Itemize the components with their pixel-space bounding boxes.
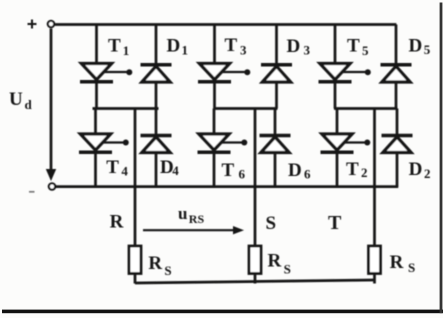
svg-text:T: T [108, 36, 121, 57]
svg-text:RS: RS [189, 212, 205, 226]
svg-text:1: 1 [182, 43, 189, 58]
svg-text:D: D [287, 36, 301, 57]
svg-text:4: 4 [121, 163, 128, 178]
svg-text:6: 6 [239, 167, 246, 182]
svg-text:d: d [25, 97, 33, 112]
svg-text:T: T [106, 157, 119, 178]
svg-text:T: T [347, 35, 360, 56]
svg-text:2: 2 [424, 166, 431, 181]
svg-text:3: 3 [304, 43, 311, 58]
svg-text:D: D [409, 159, 423, 180]
svg-text:6: 6 [304, 167, 311, 182]
svg-text:T: T [222, 160, 235, 181]
svg-text:5: 5 [424, 42, 431, 57]
svg-text:R: R [268, 251, 282, 272]
svg-text:3: 3 [240, 43, 247, 58]
svg-text:R: R [110, 212, 124, 233]
svg-text:S: S [284, 262, 291, 277]
svg-text:U: U [9, 89, 23, 110]
svg-text:T: T [346, 159, 359, 180]
svg-text:D: D [288, 160, 302, 181]
svg-text:S: S [408, 260, 415, 275]
svg-text:1: 1 [123, 43, 130, 58]
svg-text:R: R [148, 253, 162, 274]
svg-text:u: u [178, 204, 187, 223]
svg-text:S: S [266, 213, 277, 234]
svg-text:D: D [409, 35, 423, 56]
svg-text:2: 2 [361, 165, 368, 180]
svg-text:5: 5 [362, 43, 369, 58]
svg-text:R: R [390, 252, 404, 273]
svg-text:T: T [328, 212, 342, 234]
svg-text:D: D [167, 36, 181, 57]
svg-text:4: 4 [172, 163, 179, 178]
svg-text:T: T [225, 35, 238, 56]
svg-text:S: S [164, 263, 171, 278]
